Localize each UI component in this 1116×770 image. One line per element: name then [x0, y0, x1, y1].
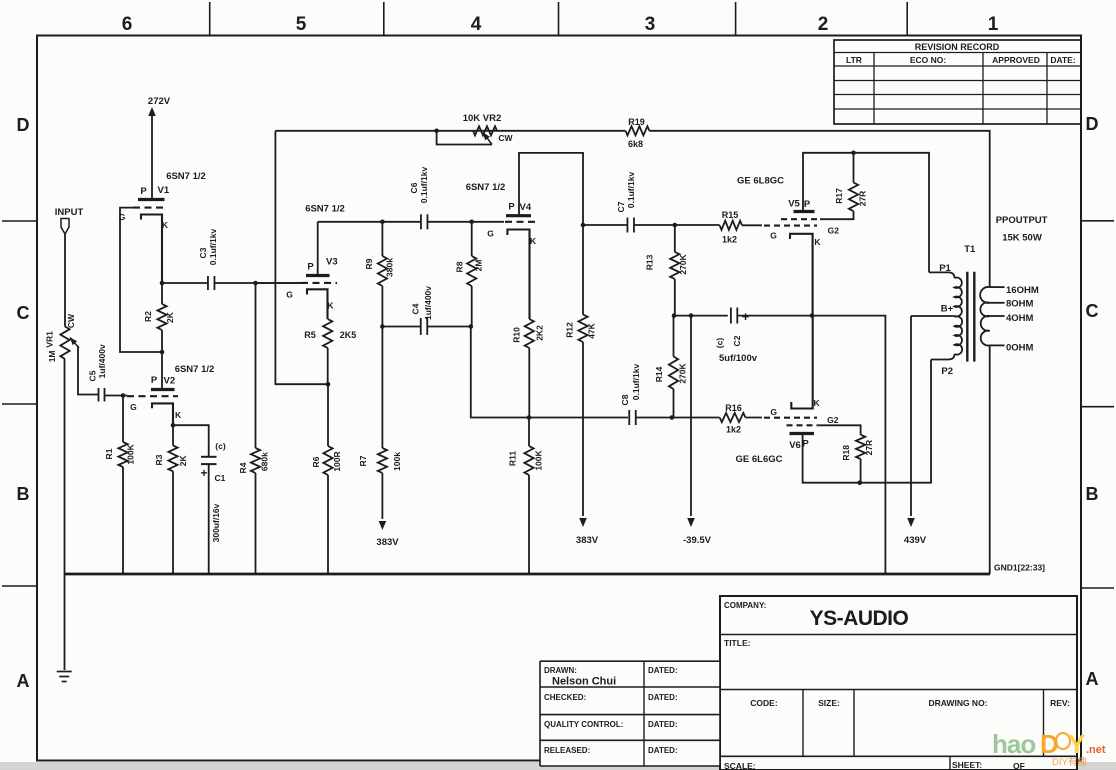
svg-text:0.1uf/1kv: 0.1uf/1kv: [626, 172, 636, 209]
svg-text:R3: R3: [154, 454, 164, 465]
svg-text:K: K: [175, 410, 182, 420]
svg-text:47K: 47K: [587, 322, 597, 338]
svg-text:6k8: 6k8: [628, 139, 643, 149]
resistor R13 270K: [645, 225, 688, 316]
svg-text:DATED:: DATED:: [648, 666, 678, 675]
svg-text:R19: R19: [628, 117, 645, 127]
svg-text:K: K: [814, 237, 821, 247]
node: [851, 151, 856, 156]
svg-text:R17: R17: [834, 188, 844, 204]
svg-text:R9: R9: [364, 258, 374, 269]
svg-text:K: K: [530, 236, 537, 246]
svg-text:R14: R14: [654, 366, 664, 382]
svg-text:1k2: 1k2: [722, 235, 737, 245]
resistor R18 27R: [817, 425, 874, 482]
svg-text:R16: R16: [725, 403, 742, 413]
svg-text:1uf/400v: 1uf/400v: [423, 286, 433, 320]
node: [670, 415, 675, 420]
svg-text:ECO NO:: ECO NO:: [910, 55, 947, 65]
svg-text:6SN7 1/2: 6SN7 1/2: [466, 182, 506, 193]
wire: [173, 425, 209, 457]
resistor R4 680k: [238, 283, 270, 574]
svg-text:+: +: [742, 309, 750, 324]
svg-text:16OHM: 16OHM: [1006, 285, 1039, 296]
triode V2 6SN7 1/2: [127, 352, 214, 425]
svg-text:8OHM: 8OHM: [1006, 299, 1034, 310]
svg-text:2K5: 2K5: [340, 330, 357, 340]
svg-text:P: P: [307, 262, 314, 273]
node V3 cathode circuit: [326, 382, 331, 387]
svg-text:DIY有趣: DIY有趣: [1052, 756, 1087, 768]
resistor R12 47K: [565, 225, 597, 527]
wire: [497, 130, 626, 132]
node: [253, 281, 258, 286]
node: [434, 129, 439, 134]
svg-text:R4: R4: [238, 462, 248, 473]
svg-text:1uf/400v: 1uf/400v: [97, 344, 107, 378]
ground symbol: [57, 672, 72, 682]
svg-text:.net: .net: [1086, 744, 1106, 756]
wire bias bus: [674, 315, 728, 317]
node cathode bus: [810, 313, 815, 318]
svg-text:T1: T1: [964, 244, 976, 255]
svg-text:27R: 27R: [864, 440, 874, 456]
svg-text:QUALITY CONTROL:: QUALITY CONTROL:: [544, 720, 623, 729]
resistor R11 100K: [508, 418, 544, 575]
svg-text:GE 6L6GC: GE 6L6GC: [736, 454, 783, 465]
svg-text:V3: V3: [326, 257, 338, 268]
svg-text:2K: 2K: [165, 311, 175, 323]
svg-text:TITLE:: TITLE:: [724, 638, 751, 648]
resistor R7 100k: [358, 327, 402, 531]
svg-text:G: G: [286, 290, 293, 300]
svg-text:REV:: REV:: [1050, 698, 1070, 708]
svg-text:B: B: [1086, 484, 1099, 504]
svg-text:B+: B+: [941, 304, 954, 315]
svg-text:REVISION RECORD: REVISION RECORD: [915, 42, 1000, 52]
svg-text:27R: 27R: [857, 191, 867, 207]
svg-text:CW: CW: [66, 313, 76, 328]
node: [160, 281, 165, 286]
wire V3 plate bus: [318, 221, 421, 223]
svg-text:G2: G2: [827, 415, 839, 425]
svg-text:6SN7 1/2: 6SN7 1/2: [166, 171, 206, 182]
svg-text:DRAWING NO:: DRAWING NO:: [928, 698, 987, 708]
svg-text:V5: V5: [788, 199, 800, 210]
transformer T1 PPOUTPUT 15K 50W: [907, 215, 1047, 527]
node: [380, 324, 385, 329]
resistor R19 6k8: [626, 117, 650, 149]
svg-text:DRAWN:: DRAWN:: [544, 666, 577, 675]
svg-text:P2: P2: [941, 366, 953, 377]
node: [469, 220, 474, 225]
capacitor C6 0.1uf/1kv: [409, 167, 504, 230]
svg-text:D: D: [17, 115, 30, 135]
svg-text:R5: R5: [304, 330, 316, 340]
potentiometer VR1 1M: [45, 313, 79, 362]
svg-text:G2: G2: [828, 226, 840, 236]
svg-text:(c): (c): [715, 338, 725, 349]
svg-text:R7: R7: [358, 455, 368, 466]
wire cathode-grid bus: [529, 417, 628, 419]
svg-text:2K2: 2K2: [535, 325, 545, 341]
svg-text:100k: 100k: [392, 452, 402, 471]
svg-text:LTR: LTR: [846, 55, 862, 65]
svg-text:2K: 2K: [178, 455, 188, 467]
svg-text:G: G: [770, 231, 777, 241]
svg-text:CW: CW: [498, 133, 513, 143]
svg-text:6: 6: [122, 14, 133, 35]
svg-text:Y: Y: [1068, 729, 1085, 759]
svg-text:C: C: [1086, 301, 1099, 321]
wire 0OHM to ground: [989, 345, 991, 574]
svg-text:100K: 100K: [534, 449, 544, 470]
node: [527, 415, 532, 420]
svg-text:300uf/16v: 300uf/16v: [211, 503, 221, 542]
ground bus: [64, 573, 990, 576]
svg-text:6SN7 1/2: 6SN7 1/2: [175, 364, 215, 375]
node: [380, 220, 385, 225]
triode V4 6SN7 1/2: [466, 182, 537, 319]
svg-text:P: P: [151, 375, 158, 386]
wire V1 grid return: [120, 208, 162, 352]
svg-text:B: B: [17, 484, 30, 504]
svg-text:1M: 1M: [47, 350, 57, 362]
wire feedback to 16OHM tap: [649, 131, 989, 287]
svg-text:0.1uf/1kv: 0.1uf/1kv: [631, 364, 641, 401]
resistor R17 27R: [820, 153, 867, 219]
svg-text:hao: hao: [992, 729, 1035, 759]
node: [858, 480, 863, 485]
svg-text:P: P: [140, 186, 147, 197]
capacitor C3 0.1uf/1kv: [162, 229, 301, 290]
svg-text:SCALE:: SCALE:: [724, 761, 756, 770]
watermark: [992, 729, 1106, 768]
potentiometer VR2 10K: [437, 113, 514, 145]
triode V1 6SN7 1/2: [119, 171, 206, 283]
svg-text:1: 1: [988, 14, 999, 35]
node: [672, 313, 677, 318]
wire: [64, 234, 66, 327]
svg-text:A: A: [1086, 669, 1099, 689]
svg-text:SIZE:: SIZE:: [818, 698, 840, 708]
wire: [471, 327, 529, 418]
wire V6 plate: [803, 360, 931, 483]
capacitor C2 5uf/100v: [715, 308, 813, 365]
svg-text:K: K: [162, 220, 169, 230]
svg-text:+: +: [200, 466, 207, 480]
resistor R3 2K: [154, 425, 188, 574]
revision record table: [834, 40, 1081, 124]
svg-text:APPROVED: APPROVED: [992, 55, 1040, 65]
svg-text:10K VR2: 10K VR2: [463, 113, 502, 124]
svg-text:GND1[22:33]: GND1[22:33]: [994, 563, 1045, 573]
svg-text:383V: 383V: [376, 537, 399, 548]
svg-text:C3: C3: [198, 247, 208, 258]
capacitor C5 1uf/400v: [88, 344, 108, 401]
svg-text:R6: R6: [311, 456, 321, 467]
feedback top wire: [275, 130, 436, 132]
svg-text:R1: R1: [104, 448, 114, 459]
node V2 cathode: [171, 423, 176, 428]
wire V5 plate: [803, 153, 929, 273]
resistor R10 2K2: [512, 319, 545, 418]
svg-text:V1: V1: [158, 185, 170, 196]
svg-text:K: K: [814, 398, 821, 408]
svg-text:P: P: [804, 199, 811, 210]
svg-text:R10: R10: [512, 327, 522, 343]
svg-text:SHEET:: SHEET:: [952, 760, 982, 770]
wire: [812, 316, 885, 574]
svg-text:VR1: VR1: [45, 331, 55, 348]
svg-text:D: D: [1086, 114, 1099, 134]
capacitor C1 300uf/16v: [200, 441, 225, 574]
wire: [105, 395, 128, 397]
triode V3 6SN7 1/2: [286, 204, 345, 320]
svg-text:100K: 100K: [125, 443, 135, 464]
node: [160, 350, 165, 355]
svg-text:5: 5: [296, 14, 307, 35]
svg-text:A: A: [17, 671, 30, 691]
node V2 grid: [121, 393, 126, 398]
wire B+ to 439V: [911, 315, 955, 317]
svg-text:GE 6L8GC: GE 6L8GC: [737, 176, 784, 187]
title block: [540, 596, 1077, 770]
svg-text:(c): (c): [215, 441, 226, 451]
resistor R5 2K5: [304, 319, 356, 384]
wire: [78, 346, 98, 395]
svg-text:R2: R2: [143, 311, 153, 322]
svg-text:1k2: 1k2: [726, 425, 741, 435]
svg-text:680k: 680k: [260, 452, 270, 471]
resistor R6 100R: [311, 384, 342, 574]
resistor R9 380k: [364, 222, 394, 327]
svg-text:R15: R15: [722, 210, 739, 220]
svg-text:15K 50W: 15K 50W: [1002, 233, 1042, 244]
resistor R8 2M: [455, 222, 484, 327]
svg-text:G: G: [130, 402, 137, 412]
svg-text:C7: C7: [616, 201, 626, 212]
svg-text:0.1uf/1kv: 0.1uf/1kv: [419, 167, 429, 204]
resistor R1 100K: [104, 396, 135, 575]
svg-text:4: 4: [471, 14, 482, 35]
power tube V5 GE 6L8GC: [737, 176, 839, 316]
feedback wire: [275, 131, 328, 384]
svg-text:6SN7 1/2: 6SN7 1/2: [305, 204, 345, 215]
svg-text:0OHM: 0OHM: [1006, 343, 1034, 354]
node: [673, 223, 678, 228]
svg-text:DATED:: DATED:: [648, 720, 678, 729]
svg-text:PPOUTPUT: PPOUTPUT: [996, 215, 1048, 226]
svg-text:270K: 270K: [678, 362, 688, 383]
svg-text:R18: R18: [841, 445, 851, 461]
resistor R15 1k2: [675, 210, 762, 245]
node: [689, 313, 694, 318]
svg-text:COMPANY:: COMPANY:: [724, 601, 766, 610]
svg-text:D: D: [1040, 729, 1058, 759]
svg-text:C4: C4: [411, 303, 421, 314]
svg-text:Nelson Chui: Nelson Chui: [552, 676, 616, 688]
svg-text:CHECKED:: CHECKED:: [544, 693, 586, 702]
wire V4 plate: [519, 153, 583, 225]
svg-text:270K: 270K: [678, 253, 688, 274]
svg-text:V4: V4: [520, 202, 532, 213]
resistor R16 1k2: [672, 403, 762, 435]
svg-text:100R: 100R: [332, 451, 342, 471]
svg-text:INPUT: INPUT: [55, 207, 84, 218]
272V supply arrow: [148, 96, 171, 200]
svg-text:380k: 380k: [384, 258, 394, 277]
svg-text:R8: R8: [455, 261, 465, 272]
svg-text:R12: R12: [565, 322, 575, 338]
svg-text:RELEASED:: RELEASED:: [544, 746, 590, 755]
input connector J1: [55, 207, 84, 234]
resistor R14 270K: [654, 316, 688, 418]
svg-text:2M: 2M: [474, 260, 484, 272]
svg-text:3: 3: [645, 14, 656, 35]
svg-text:5uf/100v: 5uf/100v: [719, 353, 758, 364]
svg-text:K: K: [327, 301, 334, 311]
svg-text:DATE:: DATE:: [1050, 55, 1076, 65]
svg-text:YS-AUDIO: YS-AUDIO: [810, 607, 909, 630]
svg-text:DATED:: DATED:: [648, 693, 678, 702]
svg-text:V6: V6: [789, 440, 801, 451]
capacitor C4 1uf/400v: [382, 286, 470, 335]
svg-text:C6: C6: [409, 182, 419, 193]
node: [469, 324, 474, 329]
svg-text:2: 2: [818, 14, 829, 35]
svg-text:383V: 383V: [576, 535, 599, 546]
svg-text:0.1uf/1kv: 0.1uf/1kv: [208, 229, 218, 266]
svg-text:C: C: [17, 303, 30, 323]
svg-text:OF: OF: [1013, 761, 1025, 770]
svg-text:C1: C1: [215, 473, 226, 483]
wire: [64, 359, 66, 670]
svg-text:CODE:: CODE:: [750, 698, 778, 708]
wire -39.5V feed: [690, 316, 692, 516]
svg-text:C8: C8: [620, 394, 630, 405]
svg-text:R11: R11: [508, 451, 518, 466]
svg-text:C2: C2: [732, 335, 742, 346]
svg-text:4OHM: 4OHM: [1006, 313, 1034, 324]
resistor R2 2K: [143, 283, 175, 352]
capacitor C7 0.1uf/1kv: [583, 172, 675, 233]
power tube V6 GE 6L6GC: [736, 316, 839, 465]
svg-text:G: G: [770, 407, 777, 417]
svg-text:R13: R13: [645, 254, 655, 270]
svg-text:272V: 272V: [148, 96, 171, 107]
node: [581, 223, 586, 228]
svg-text:DATED:: DATED:: [648, 746, 678, 755]
wire: [256, 282, 302, 284]
svg-text:-39.5V: -39.5V: [683, 535, 712, 546]
svg-text:V2: V2: [164, 376, 176, 387]
svg-text:C5: C5: [88, 370, 98, 381]
svg-text:439V: 439V: [904, 535, 927, 546]
svg-text:P: P: [508, 202, 515, 213]
capacitor C8 0.1uf/1kv: [620, 364, 672, 425]
svg-text:G: G: [487, 229, 494, 239]
